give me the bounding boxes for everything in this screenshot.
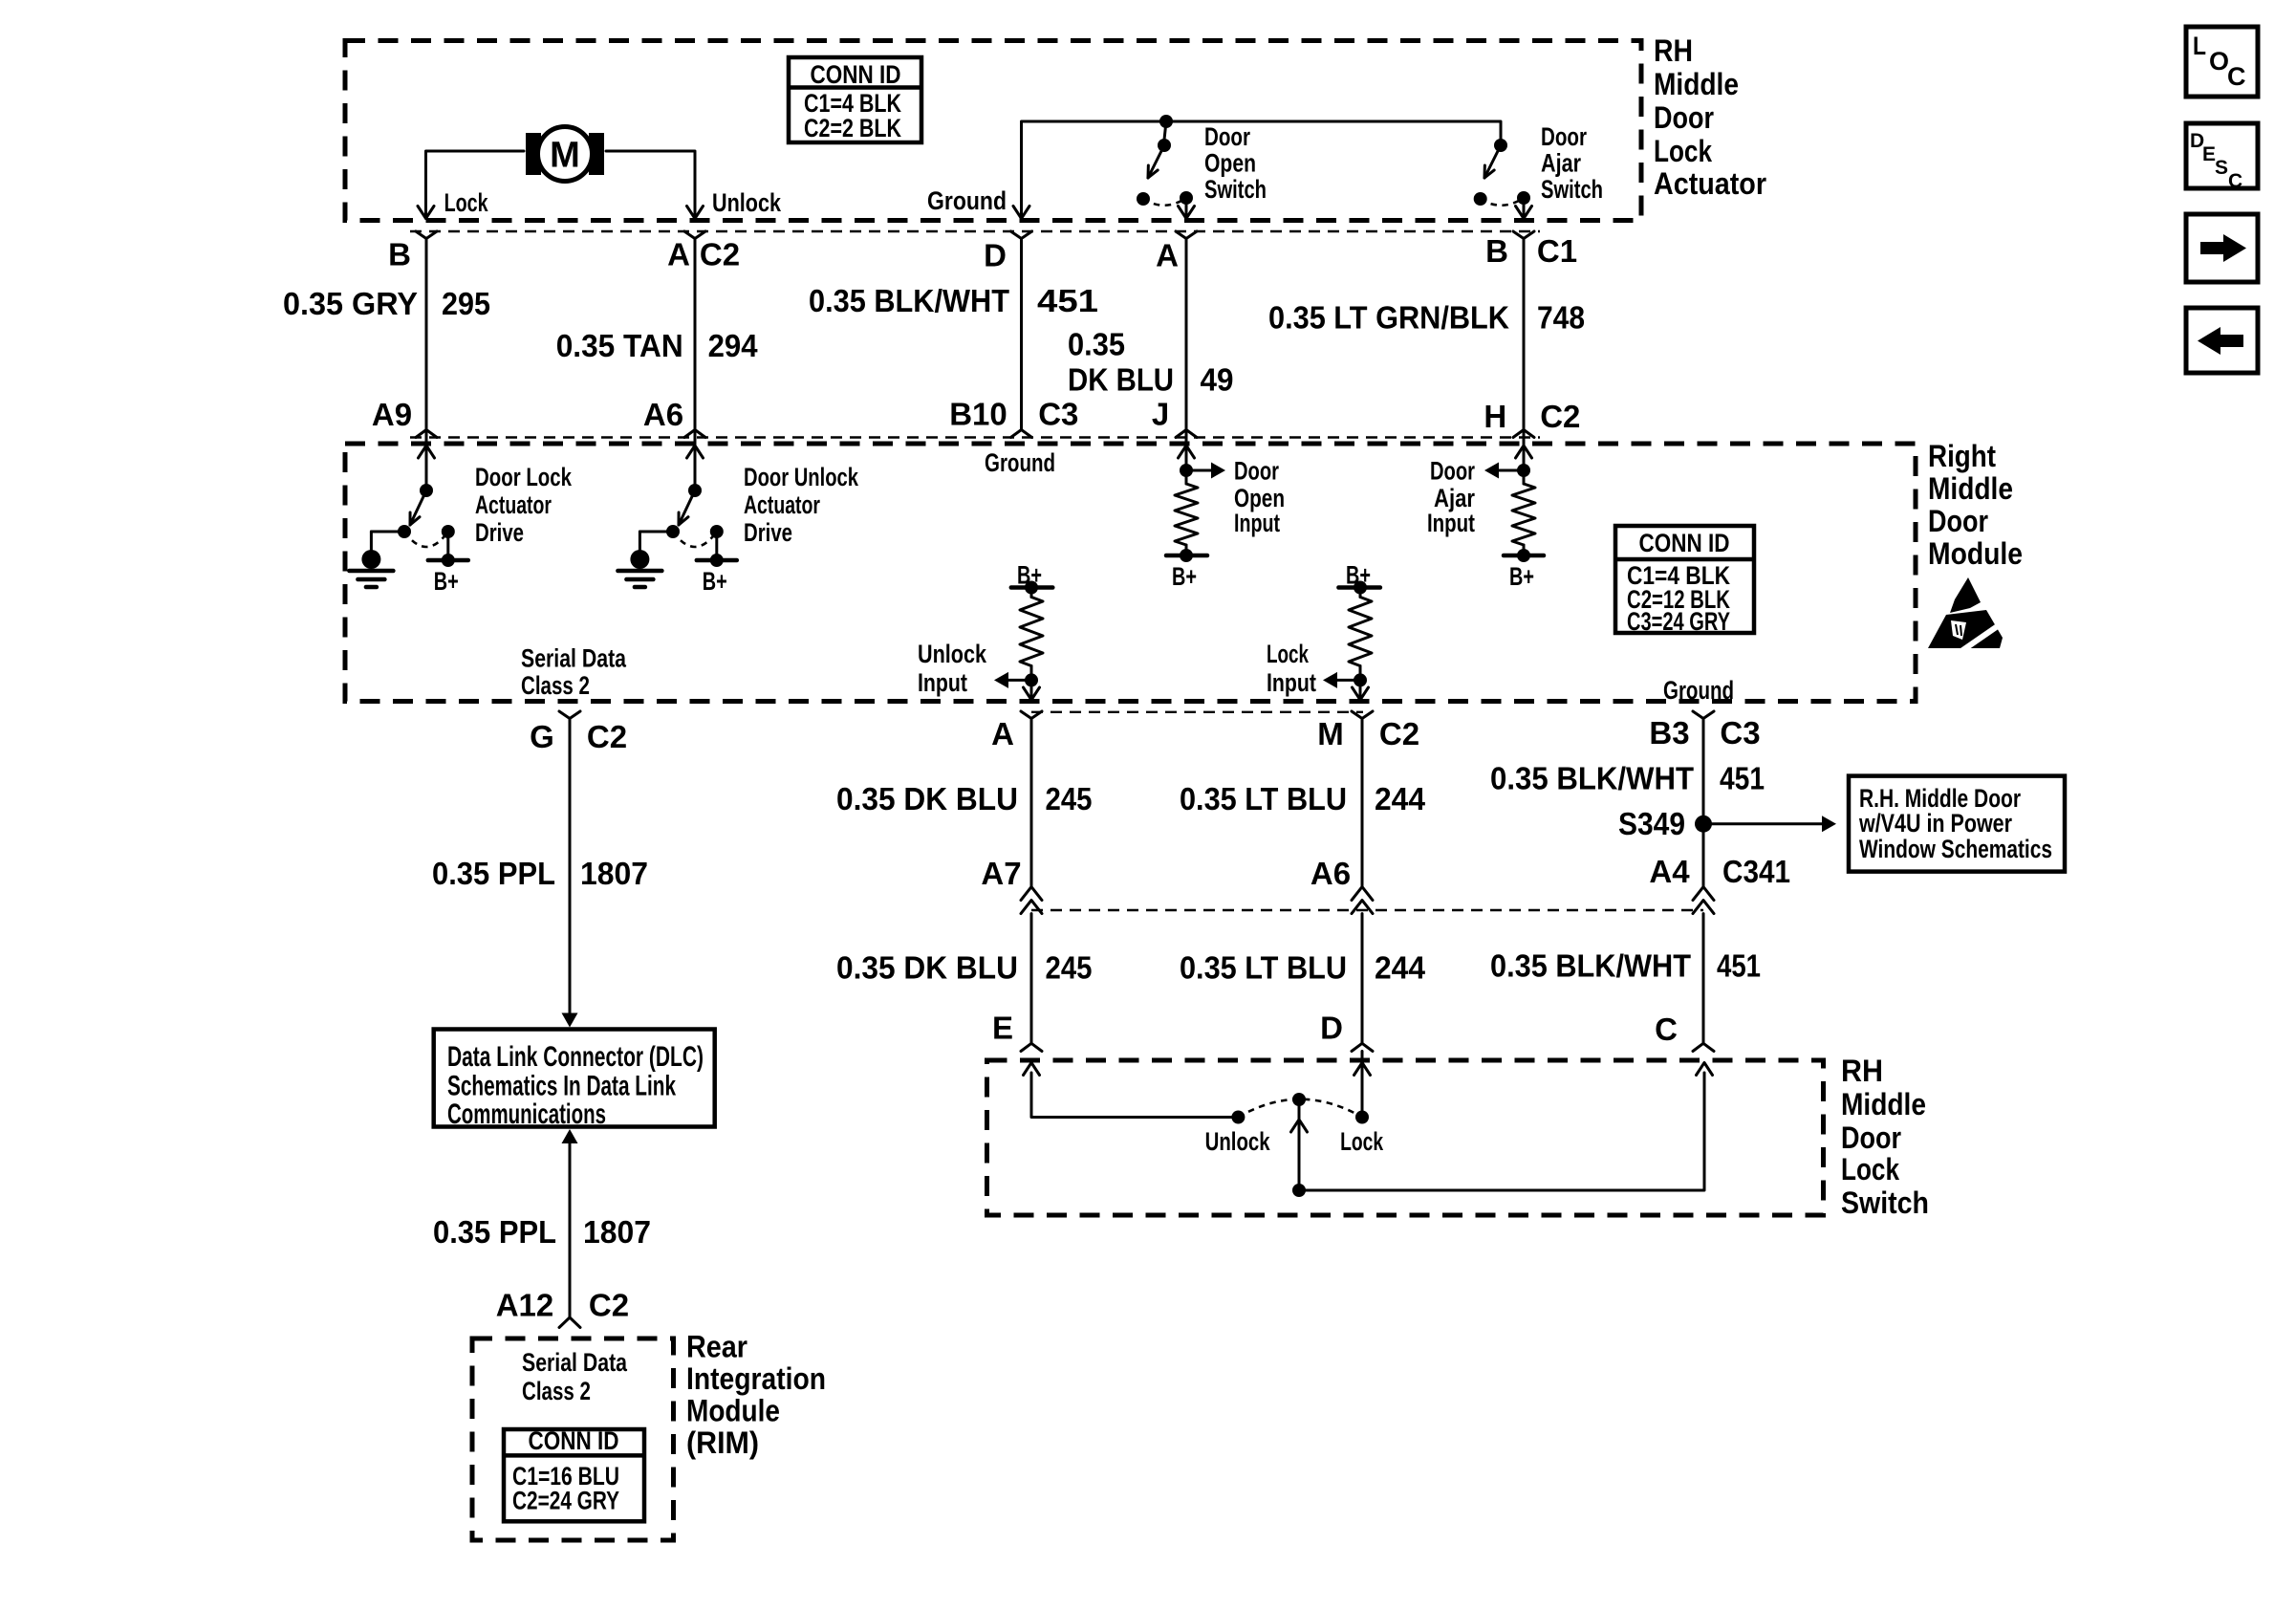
svg-text:Rear: Rear xyxy=(686,1330,747,1364)
connector pin A/C2 (unlock) xyxy=(1021,711,1042,719)
svg-text:C3=24 GRY: C3=24 GRY xyxy=(1627,607,1730,636)
svg-text:Ground: Ground xyxy=(927,186,1007,215)
wire 245 DK BLU (A7 to E) xyxy=(1030,914,1033,1044)
svg-text:C: C xyxy=(2227,62,2246,91)
connector pin B10/C3 xyxy=(1011,430,1032,438)
svg-text:A4: A4 xyxy=(1649,854,1690,889)
svg-text:Door: Door xyxy=(1841,1120,1901,1155)
in-line connector pins A4 xyxy=(1693,887,1714,901)
svg-text:245: 245 xyxy=(1046,950,1093,986)
wire: motor to lock drive xyxy=(426,151,525,216)
svg-text:Input: Input xyxy=(1427,509,1475,537)
svg-text:Door Lock: Door Lock xyxy=(475,463,573,491)
svg-text:Class 2: Class 2 xyxy=(522,1377,591,1405)
svg-text:Lock: Lock xyxy=(1654,134,1712,168)
door open input resistor xyxy=(1185,430,1188,485)
svg-text:Drive: Drive xyxy=(475,518,524,547)
svg-text:49: 49 xyxy=(1201,362,1234,398)
svg-text:Lock: Lock xyxy=(444,188,489,217)
svg-text:CONN ID: CONN ID xyxy=(811,60,901,89)
svg-text:0.35 GRY: 0.35 GRY xyxy=(283,286,418,321)
connector pin A12/C2 xyxy=(559,1317,580,1328)
Rear Integration Module box xyxy=(472,1338,674,1540)
wire: door open switch output xyxy=(1185,198,1188,216)
connector pin H/C2 xyxy=(1513,430,1534,438)
wire 1807 PPL (G to DLC) xyxy=(569,719,572,1016)
svg-text:Lock: Lock xyxy=(1841,1152,1899,1186)
svg-text:A: A xyxy=(991,716,1014,751)
connector boundary row 2 xyxy=(410,436,1540,438)
svg-text:B: B xyxy=(1485,233,1508,269)
switch wire D (lock side) xyxy=(1361,1052,1364,1118)
svg-text:B+: B+ xyxy=(434,567,459,596)
svg-text:J: J xyxy=(1152,397,1169,432)
svg-text:L: L xyxy=(2193,32,2206,60)
svg-text:C: C xyxy=(2228,170,2242,192)
svg-text:244: 244 xyxy=(1375,781,1426,816)
connector boundary row 3 xyxy=(1031,711,1363,713)
door unlock actuator drive switch xyxy=(694,430,697,491)
connector pin J/C2 xyxy=(1176,430,1197,438)
svg-text:Right: Right xyxy=(1928,439,1996,473)
wire to power window schematics xyxy=(1712,822,1822,825)
svg-text:Middle: Middle xyxy=(1841,1087,1926,1121)
connector pin C xyxy=(1693,1043,1714,1051)
svg-text:C1: C1 xyxy=(1537,233,1577,269)
svg-text:0.35 BLK/WHT: 0.35 BLK/WHT xyxy=(1490,761,1694,796)
in-line connector pins A6 xyxy=(1352,887,1373,901)
svg-text:RH: RH xyxy=(1841,1054,1883,1088)
wire 245 DK BLU (A to A7) xyxy=(1030,719,1033,887)
B+ terminal (door lock drive) xyxy=(404,532,448,547)
svg-text:451: 451 xyxy=(1717,948,1761,984)
svg-text:0.35 LT GRN/BLK: 0.35 LT GRN/BLK xyxy=(1268,300,1509,336)
motor M xyxy=(526,133,541,175)
connector pin A6 xyxy=(684,430,705,438)
CONN ID table (module) xyxy=(1615,526,1754,633)
CONN ID table (actuator) xyxy=(789,57,921,142)
svg-text:Schematics In Data Link: Schematics In Data Link xyxy=(447,1071,676,1102)
B+ terminal (door unlock drive) xyxy=(673,532,717,547)
svg-text:Unlock: Unlock xyxy=(712,188,782,217)
svg-text:451: 451 xyxy=(1037,283,1098,318)
svg-text:Switch: Switch xyxy=(1841,1186,1929,1220)
svg-text:O: O xyxy=(2209,47,2229,76)
door lock actuator drive switch xyxy=(425,430,428,491)
svg-text:C2: C2 xyxy=(1379,716,1419,751)
svg-text:Window Schematics: Window Schematics xyxy=(1859,835,2052,863)
B+ terminal (door ajar input) xyxy=(1523,545,1526,559)
svg-text:Middle: Middle xyxy=(1654,67,1739,101)
svg-text:Drive: Drive xyxy=(744,518,792,547)
svg-text:(RIM): (RIM) xyxy=(686,1425,759,1460)
svg-text:Input: Input xyxy=(918,668,967,697)
svg-text:295: 295 xyxy=(442,286,490,321)
door open switch xyxy=(1164,121,1166,140)
wire 49 DK BLU (A to J) xyxy=(1185,239,1188,430)
svg-text:Door: Door xyxy=(1204,122,1250,151)
svg-text:Serial Data: Serial Data xyxy=(522,1348,628,1377)
svg-text:D: D xyxy=(1320,1011,1343,1046)
connector pin B/C2 xyxy=(416,231,437,239)
svg-text:C2: C2 xyxy=(589,1288,629,1323)
wire: door ajar switch output xyxy=(1523,198,1526,216)
svg-text:A7: A7 xyxy=(981,856,1021,891)
svg-text:CONN ID: CONN ID xyxy=(1639,529,1730,557)
svg-text:D: D xyxy=(984,238,1007,273)
connector pin A/C2 xyxy=(684,231,705,239)
svg-text:Input: Input xyxy=(1234,509,1280,537)
svg-text:0.35 BLK/WHT: 0.35 BLK/WHT xyxy=(1490,948,1691,984)
svg-text:E: E xyxy=(2202,143,2216,165)
svg-text:B: B xyxy=(388,237,411,272)
ground (door unlock drive) xyxy=(630,550,649,569)
svg-text:244: 244 xyxy=(1375,950,1426,986)
wire 451 BLK/WHT (D to B10) xyxy=(1020,239,1023,430)
svg-text:Unlock: Unlock xyxy=(918,640,987,668)
svg-text:C3: C3 xyxy=(1720,715,1760,751)
svg-text:B10: B10 xyxy=(949,397,1007,432)
ESD warning symbol xyxy=(1950,577,1981,613)
svg-text:M: M xyxy=(1317,716,1344,751)
connector pin B3/C3 (ground) xyxy=(1693,711,1714,719)
svg-text:Serial Data: Serial Data xyxy=(521,644,627,673)
svg-text:A: A xyxy=(1156,238,1179,273)
wire 748 LT GRN/BLK (B to H) xyxy=(1523,239,1526,430)
svg-text:A6: A6 xyxy=(1310,856,1351,891)
door ajar input resistor xyxy=(1523,430,1526,485)
svg-text:E: E xyxy=(992,1011,1013,1046)
svg-text:B+: B+ xyxy=(703,567,727,596)
wire: switch feed / ground (actuator) xyxy=(1022,121,1502,216)
connector pin B/C1 (door ajar) xyxy=(1513,231,1534,239)
svg-text:S349: S349 xyxy=(1618,806,1685,841)
svg-text:1807: 1807 xyxy=(580,856,648,891)
switch wire to C xyxy=(1299,1073,1704,1190)
svg-text:w/V4U in Power: w/V4U in Power xyxy=(1858,809,2012,838)
svg-text:C2: C2 xyxy=(700,237,740,272)
connector pin E xyxy=(1021,1043,1042,1051)
svg-text:C: C xyxy=(1655,1012,1678,1047)
svg-text:A: A xyxy=(667,237,690,272)
svg-text:Ground: Ground xyxy=(1663,676,1734,705)
svg-text:0.35: 0.35 xyxy=(1068,327,1125,362)
svg-text:DK BLU: DK BLU xyxy=(1068,362,1174,398)
svg-text:Door: Door xyxy=(1654,100,1714,135)
svg-text:0.35 BLK/WHT: 0.35 BLK/WHT xyxy=(809,283,1009,318)
svg-text:H: H xyxy=(1484,399,1506,434)
svg-text:B3: B3 xyxy=(1649,715,1689,751)
svg-text:Door: Door xyxy=(1928,504,1988,538)
svg-text:CONN ID: CONN ID xyxy=(529,1426,619,1455)
door ajar switch xyxy=(1494,139,1507,152)
svg-text:0.35 PPL: 0.35 PPL xyxy=(432,856,555,891)
lock switch wiper arc xyxy=(1238,1099,1362,1118)
svg-text:Middle: Middle xyxy=(1928,471,2013,506)
svg-text:Open: Open xyxy=(1204,149,1256,178)
svg-text:RH: RH xyxy=(1654,33,1693,68)
svg-text:C2=24 GRY: C2=24 GRY xyxy=(512,1487,619,1515)
switch common wire xyxy=(1298,1099,1301,1190)
R.H. Middle Door w/V4U reference box xyxy=(1849,776,2065,872)
B+ terminal (door open input) xyxy=(1185,545,1188,559)
connector pin M/C2 (lock) xyxy=(1352,711,1373,719)
svg-text:A9: A9 xyxy=(372,397,412,432)
connector boundary row 1 xyxy=(410,230,1540,232)
svg-text:Lock: Lock xyxy=(1267,640,1310,668)
svg-text:Door: Door xyxy=(1234,457,1279,486)
wire 1807 PPL (A12 to DLC) xyxy=(569,1142,572,1317)
CONN ID table (RIM) xyxy=(504,1429,644,1521)
RH Middle Door Lock Actuator box xyxy=(345,41,1641,221)
svg-text:0.35 LT BLU: 0.35 LT BLU xyxy=(1180,950,1347,986)
svg-text:0.35 DK BLU: 0.35 DK BLU xyxy=(836,950,1018,986)
svg-text:Input: Input xyxy=(1267,668,1316,697)
connector pin G/C2 xyxy=(559,711,580,719)
switch wire E (unlock side) xyxy=(1031,1073,1238,1118)
wire 244 LT BLU (A6 to D) xyxy=(1361,914,1364,1044)
svg-text:Ground: Ground xyxy=(985,448,1055,477)
svg-text:Switch: Switch xyxy=(1541,175,1603,204)
wire 295 GRY (B to A9) xyxy=(425,239,428,430)
svg-text:M: M xyxy=(550,136,580,176)
svg-text:Module: Module xyxy=(1928,536,2023,571)
wire 451 BLK/WHT (A4 to C) xyxy=(1702,914,1705,1044)
in-line connector pins A7 xyxy=(1021,887,1042,901)
svg-text:Integration: Integration xyxy=(686,1361,826,1396)
svg-text:B+: B+ xyxy=(1509,562,1534,591)
svg-text:Door Unlock: Door Unlock xyxy=(744,463,859,491)
Right Middle Door Module box xyxy=(345,444,1916,702)
nav icon DESC xyxy=(2186,123,2258,188)
RH Middle Door Lock Switch box xyxy=(987,1060,1824,1215)
svg-text:0.35 TAN: 0.35 TAN xyxy=(556,328,683,363)
svg-text:245: 245 xyxy=(1046,781,1093,816)
in-line connector C341 boundary xyxy=(1031,909,1703,911)
svg-text:Actuator: Actuator xyxy=(475,490,552,519)
connector pin A9 xyxy=(416,430,437,438)
svg-text:C341: C341 xyxy=(1722,854,1790,889)
wire 244 LT BLU (M to A6) xyxy=(1361,719,1364,887)
wire 451 BLK/WHT (B3 to S349) xyxy=(1702,719,1705,887)
svg-text:0.35 LT BLU: 0.35 LT BLU xyxy=(1180,781,1347,816)
svg-text:C2=2 BLK: C2=2 BLK xyxy=(804,114,901,142)
svg-text:Switch: Switch xyxy=(1204,175,1267,204)
svg-text:451: 451 xyxy=(1720,761,1765,796)
svg-text:C2: C2 xyxy=(1540,399,1580,434)
nav icon LOC xyxy=(2186,27,2258,97)
junction dot door open switch feed xyxy=(1159,115,1173,128)
svg-text:Actuator: Actuator xyxy=(1654,166,1766,201)
svg-text:Door: Door xyxy=(1541,122,1587,151)
svg-text:Lock: Lock xyxy=(1340,1127,1384,1156)
ground (door lock drive) xyxy=(361,550,380,569)
svg-text:Unlock: Unlock xyxy=(1205,1127,1271,1156)
svg-text:B+: B+ xyxy=(1172,562,1197,591)
svg-text:0.35 DK BLU: 0.35 DK BLU xyxy=(836,781,1018,816)
svg-text:Data Link Connector (DLC): Data Link Connector (DLC) xyxy=(447,1041,704,1073)
svg-text:Door: Door xyxy=(1430,457,1475,486)
wire 294 TAN (A to A6) xyxy=(694,239,697,430)
svg-text:A12: A12 xyxy=(496,1288,554,1323)
connector pin A/C1 (door open) xyxy=(1176,231,1197,239)
svg-text:748: 748 xyxy=(1537,300,1585,336)
svg-text:Ajar: Ajar xyxy=(1541,149,1581,178)
svg-text:294: 294 xyxy=(708,328,759,363)
svg-text:Actuator: Actuator xyxy=(744,490,820,519)
Data Link Connector reference box xyxy=(434,1030,715,1127)
svg-text:C3: C3 xyxy=(1038,397,1078,432)
connector pin D xyxy=(1352,1043,1373,1051)
nav icon previous page xyxy=(2186,308,2258,373)
connector pin D/C3 xyxy=(1011,231,1032,239)
wire: motor to unlock drive xyxy=(606,151,695,216)
svg-text:C2: C2 xyxy=(587,719,627,754)
svg-text:A6: A6 xyxy=(643,397,683,432)
svg-text:Communications: Communications xyxy=(447,1099,606,1130)
svg-text:G: G xyxy=(530,719,554,754)
svg-text:Class 2: Class 2 xyxy=(521,671,590,700)
svg-text:0.35 PPL: 0.35 PPL xyxy=(433,1214,556,1250)
svg-text:S: S xyxy=(2215,157,2228,179)
svg-text:1807: 1807 xyxy=(583,1214,651,1250)
svg-text:Module: Module xyxy=(686,1394,780,1428)
nav icon next page xyxy=(2186,214,2258,282)
